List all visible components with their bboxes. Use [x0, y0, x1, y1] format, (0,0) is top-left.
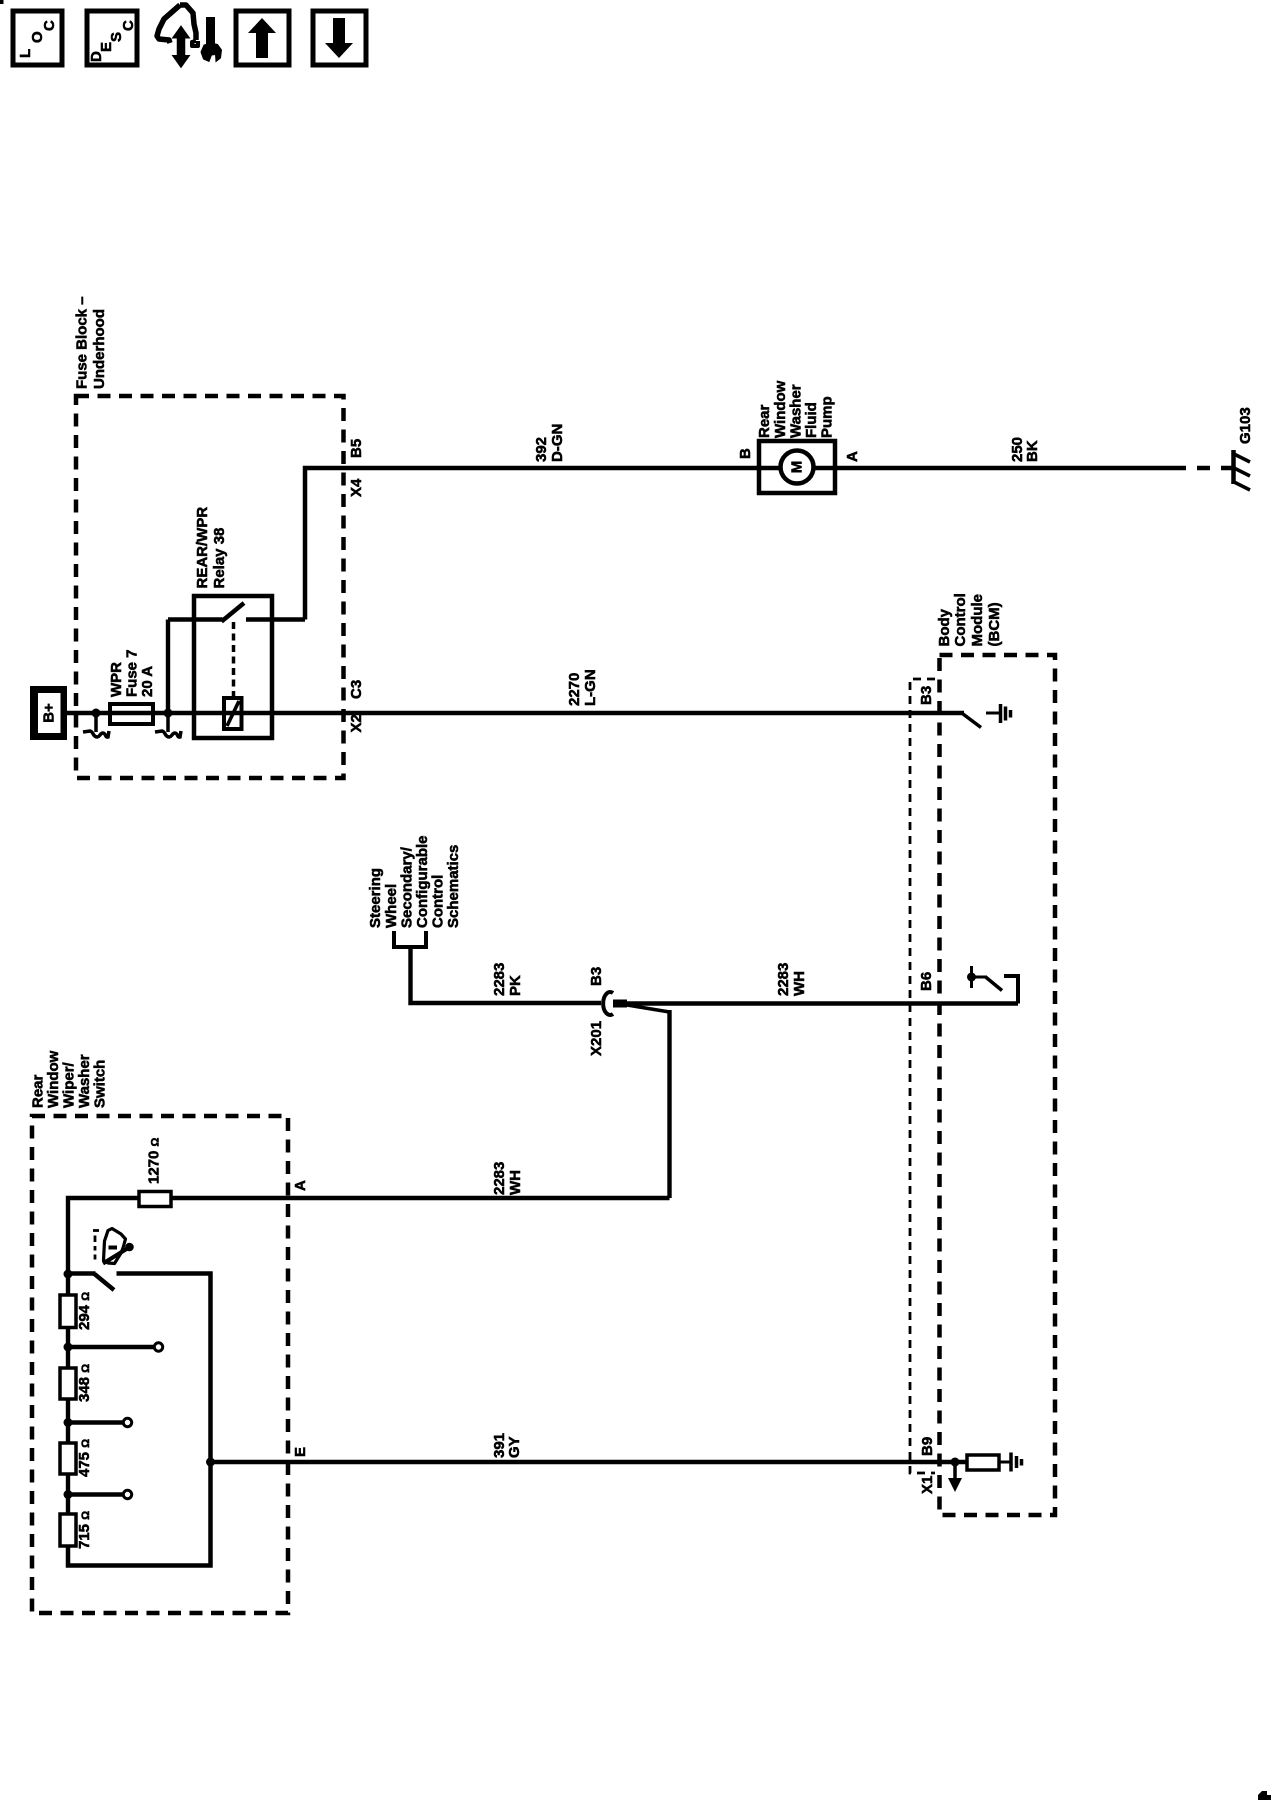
- connector X201: [603, 992, 613, 1015]
- svg-text:2283: 2283: [491, 1162, 508, 1195]
- relay coil dashed link: [232, 622, 236, 698]
- svg-text:B+: B+: [41, 703, 58, 723]
- svg-text:X201: X201: [588, 1021, 605, 1056]
- svg-text:Schematics: Schematics: [445, 845, 462, 928]
- svg-text:Window: Window: [45, 1050, 62, 1108]
- fuse block dashed box: [76, 396, 344, 778]
- tap 1: [64, 1343, 73, 1352]
- svg-text:X2: X2: [348, 714, 365, 732]
- svg-text:392: 392: [533, 437, 550, 462]
- svg-text:GY: GY: [506, 1436, 523, 1458]
- continuation arrow down: [953, 1462, 957, 1479]
- svg-text:Fuse Block –: Fuse Block –: [74, 296, 91, 389]
- svg-text:2283: 2283: [491, 963, 508, 996]
- button arrow-down: [313, 11, 366, 65]
- svg-text:Module: Module: [969, 594, 986, 647]
- clip symbol 1: [94, 713, 98, 732]
- svg-text:L-GN: L-GN: [582, 669, 599, 706]
- resistor 348 ohm: [60, 1368, 76, 1399]
- off-page reference bracket: [394, 931, 426, 947]
- svg-text:E: E: [98, 42, 115, 52]
- svg-text:Control: Control: [430, 875, 447, 928]
- clip symbol 2: [166, 713, 170, 732]
- svg-text:WPR: WPR: [108, 662, 125, 697]
- svg-text:O: O: [29, 31, 46, 43]
- junction node at B9: [951, 1458, 960, 1467]
- svg-text:B9: B9: [919, 1437, 936, 1456]
- relay coil: [224, 698, 242, 729]
- svg-text:Window: Window: [772, 380, 789, 438]
- switch common rail: [68, 1274, 211, 1566]
- svg-text:BK: BK: [1024, 440, 1041, 462]
- svg-text:S: S: [108, 32, 125, 42]
- resistor ladder wire: [66, 1274, 70, 1296]
- svg-text:C3: C3: [348, 680, 365, 699]
- svg-text:B3: B3: [588, 967, 605, 986]
- svg-text:Switch: Switch: [92, 1060, 109, 1108]
- svg-text:A: A: [844, 451, 861, 462]
- svg-text:C: C: [120, 20, 137, 31]
- svg-text:E: E: [292, 1447, 309, 1457]
- switch pivot node: [64, 1270, 73, 1279]
- svg-text:L: L: [17, 49, 34, 58]
- switch blade: [68, 1271, 96, 1275]
- svg-text:Control: Control: [952, 593, 969, 646]
- svg-text:X4: X4: [348, 478, 365, 497]
- junction node at B+ branch: [92, 709, 101, 718]
- svg-text:Washer: Washer: [76, 1054, 93, 1108]
- BCM dashed box: [940, 655, 1056, 1515]
- resistor 475 ohm: [60, 1443, 76, 1474]
- battery terminal B+: [30, 686, 67, 740]
- svg-text:Fluid: Fluid: [803, 402, 820, 438]
- switch to ground inside BCM at B3: [963, 714, 981, 728]
- button arrow-up: [236, 11, 289, 65]
- svg-text:Relay 38: Relay 38: [211, 528, 228, 589]
- svg-text:WH: WH: [507, 1170, 524, 1195]
- svg-text:Configurable: Configurable: [414, 836, 431, 929]
- wiper washer icon: [93, 1229, 134, 1264]
- junction node E: [206, 1458, 215, 1467]
- wire relay feed to contact: [166, 620, 170, 714]
- svg-text:Washer: Washer: [788, 384, 805, 438]
- svg-text:WH: WH: [791, 971, 808, 996]
- svg-text:Pump: Pump: [819, 396, 836, 438]
- svg-text:Wheel: Wheel: [383, 884, 400, 928]
- svg-text:Fuse 7: Fuse 7: [124, 649, 141, 697]
- fuse WPR Fuse 7 20 A: [110, 704, 153, 724]
- switch dashed box: [32, 1116, 288, 1613]
- svg-text:Body: Body: [936, 608, 953, 646]
- svg-text:(BCM): (BCM): [986, 602, 1003, 646]
- resistor 294 ohm: [60, 1295, 76, 1328]
- svg-text:PK: PK: [507, 975, 524, 996]
- wire 2283 WH into B6: [627, 1001, 1018, 1005]
- svg-text:Secondary/: Secondary/: [399, 846, 416, 928]
- wire B+ feed (net 2270 to BCM B3): [64, 711, 964, 715]
- ground (internal, B9): [1011, 1453, 1022, 1472]
- svg-text:D-GN: D-GN: [549, 424, 566, 462]
- svg-text:M: M: [789, 461, 806, 474]
- junction node after fuse: [164, 709, 173, 718]
- connector X2 dotted boundary: [910, 679, 935, 1473]
- tap 2: [64, 1418, 73, 1427]
- tap 3: [64, 1490, 73, 1499]
- svg-text:Rear: Rear: [30, 1074, 47, 1108]
- svg-text:B: B: [737, 448, 754, 459]
- driver symbol inside BCM at B6: [967, 966, 1018, 1004]
- button DESC: [87, 11, 137, 65]
- wire E row 391 GY: [211, 1460, 968, 1464]
- ground G103: [1232, 450, 1250, 490]
- page corner artifacts: [0, 0, 4, 4]
- relay REAR/WPR Relay 38 box: [194, 596, 272, 738]
- svg-text:A: A: [292, 1180, 309, 1191]
- ground (internal, B3): [986, 704, 1011, 723]
- resistor 1270 ohm: [139, 1192, 171, 1207]
- svg-text:Wiper/: Wiper/: [61, 1061, 78, 1108]
- svg-text:G103: G103: [1237, 407, 1254, 444]
- resistor 715 ohm: [60, 1514, 76, 1546]
- wire relay output up to B5: [305, 468, 1173, 620]
- svg-text:2283: 2283: [775, 963, 792, 996]
- svg-text:Underhood: Underhood: [91, 309, 108, 389]
- wire dashed to ground: [1173, 466, 1232, 470]
- svg-text:B3: B3: [918, 686, 935, 705]
- wire A row: [68, 1198, 670, 1274]
- icon vehicle-height-adjust with wrench: [157, 5, 222, 68]
- svg-text:2270: 2270: [566, 673, 583, 706]
- svg-text:20 A: 20 A: [139, 666, 156, 697]
- svg-text:X1: X1: [919, 1476, 936, 1494]
- button LOC: [13, 11, 62, 65]
- svg-text:B6: B6: [918, 972, 935, 991]
- svg-text:Steering: Steering: [367, 868, 384, 928]
- branch from switch joining after X201: [627, 1005, 670, 1012]
- wire 2283 PK from schematic to X201: [411, 947, 602, 1003]
- motor rear window washer fluid pump: [759, 441, 835, 493]
- svg-text:C: C: [41, 20, 58, 31]
- relay contact: [168, 617, 223, 621]
- internal resistor at B9: [967, 1455, 999, 1470]
- svg-text:B5: B5: [348, 439, 365, 458]
- svg-text:Rear: Rear: [756, 404, 773, 438]
- svg-text:REAR/WPR: REAR/WPR: [194, 507, 211, 589]
